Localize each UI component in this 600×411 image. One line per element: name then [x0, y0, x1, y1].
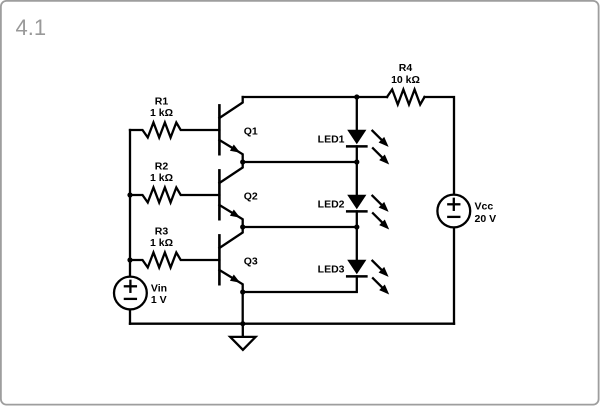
- svg-text:R3: R3: [155, 226, 169, 238]
- source Vin (1 V): [114, 277, 147, 310]
- junction left rail / R3: [127, 257, 132, 262]
- svg-text:1 V: 1 V: [151, 294, 167, 306]
- ground: [230, 324, 255, 350]
- svg-text:Vin: Vin: [151, 283, 167, 295]
- svg-text:20 V: 20 V: [475, 213, 497, 225]
- svg-text:Vcc: Vcc: [475, 200, 494, 212]
- svg-text:LED3: LED3: [318, 264, 345, 276]
- svg-text:1 kΩ: 1 kΩ: [150, 237, 173, 249]
- LED LED3: [347, 260, 389, 295]
- wire Q2 emitter to LED2 cathode node: [243, 226, 357, 228]
- svg-text:1 kΩ: 1 kΩ: [150, 107, 173, 119]
- wire left rail: [129, 130, 131, 277]
- resistor R3: [130, 253, 219, 268]
- wire top rail: [243, 96, 387, 98]
- svg-text:LED2: LED2: [318, 199, 345, 211]
- svg-text:4.1: 4.1: [16, 15, 47, 40]
- svg-text:R2: R2: [155, 161, 169, 173]
- junction left rail / R2: [127, 192, 132, 197]
- junction Q1 emitter node: [240, 159, 245, 164]
- transistor Q3 (NPN): [219, 227, 242, 292]
- svg-text:Q3: Q3: [244, 255, 258, 267]
- wire LED2 cathode to LED3 anode: [356, 211, 358, 259]
- wire Q1 emitter to LED1 cathode node: [243, 161, 357, 163]
- svg-text:R1: R1: [155, 96, 169, 108]
- transistor Q2 (NPN): [219, 162, 242, 227]
- LED LED1: [347, 130, 389, 165]
- wire Q3 emitter node to bottom rail: [242, 292, 244, 324]
- junction Q2 emitter node: [240, 224, 245, 229]
- svg-text:R4: R4: [399, 62, 413, 74]
- wire LED1 cathode to LED2 anode: [356, 146, 358, 194]
- wire Vin bottom lead: [129, 309, 131, 323]
- svg-text:Q2: Q2: [244, 190, 258, 202]
- wire bottom rail: [130, 323, 454, 325]
- svg-text:Q1: Q1: [244, 125, 258, 137]
- transistor Q1 (NPN): [219, 97, 242, 162]
- wire Vcc bottom lead: [453, 227, 455, 323]
- wire top rail to LED1 anode: [356, 97, 358, 130]
- resistor R2: [130, 188, 219, 203]
- LED LED2: [347, 195, 389, 230]
- resistor R4: [387, 90, 425, 105]
- junction Q3 emitter node: [240, 289, 245, 294]
- junction LED1 cathode / Q1 emitter wire: [354, 159, 359, 164]
- svg-text:LED1: LED1: [318, 134, 345, 146]
- resistor R1: [130, 123, 219, 138]
- wire R4 to right rail and down to Vcc: [425, 97, 455, 195]
- svg-text:1 kΩ: 1 kΩ: [150, 172, 173, 184]
- svg-text:10 kΩ: 10 kΩ: [391, 74, 420, 86]
- junction bottom rail / ground: [240, 321, 245, 326]
- junction top rail / LED column: [354, 94, 359, 99]
- junction LED2 cathode / Q2 emitter wire: [354, 224, 359, 229]
- wire LED3 cathode to Q3 emitter wire: [243, 276, 357, 292]
- source Vcc (20 V): [437, 195, 470, 228]
